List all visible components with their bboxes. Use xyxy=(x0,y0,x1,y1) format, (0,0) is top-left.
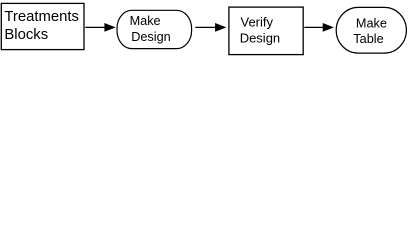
svg-text:Make: Make xyxy=(130,14,161,28)
arrow 3 head xyxy=(323,23,334,32)
svg-text:Blocks: Blocks xyxy=(4,27,48,43)
svg-text:Design: Design xyxy=(131,30,171,44)
svg-text:Treatments: Treatments xyxy=(4,9,79,25)
arrow 1 wire xyxy=(85,26,105,28)
terminator: Make Design xyxy=(117,10,192,48)
svg-text:Design: Design xyxy=(240,31,280,46)
process box: Verify Design xyxy=(229,7,303,55)
background xyxy=(0,0,410,60)
process box: Treatments Blocks xyxy=(1,3,84,49)
arrow 2 head xyxy=(215,23,226,32)
terminator: Make Table xyxy=(336,7,406,53)
arrow 3 wire xyxy=(304,26,323,28)
svg-text:Verify: Verify xyxy=(241,14,274,29)
flowchart diagram xyxy=(0,0,410,60)
svg-text:Table: Table xyxy=(353,32,383,46)
arrow 2 wire xyxy=(195,26,216,28)
svg-text:Make: Make xyxy=(356,17,387,31)
arrow 1 head xyxy=(104,23,115,32)
